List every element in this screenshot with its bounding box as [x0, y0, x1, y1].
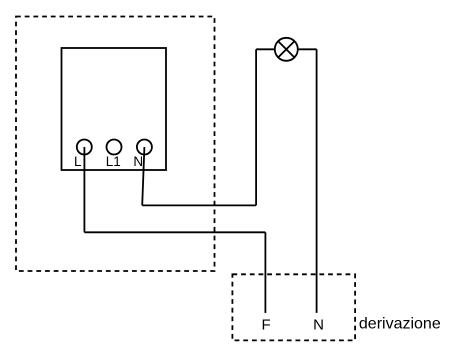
terminal L1	[107, 140, 122, 155]
derivation box (dashed)	[232, 274, 355, 340]
terminal N	[137, 140, 152, 155]
svg-text:L: L	[74, 154, 82, 169]
wire: horizontal run to F	[84, 231, 265, 233]
svg-text:derivazione: derivazione	[359, 316, 441, 333]
svg-text:N: N	[313, 317, 324, 334]
svg-text:L1: L1	[106, 154, 121, 169]
wire: lamp right lead	[298, 48, 317, 50]
wire: drop to terminal F	[264, 232, 266, 313]
wire: terminal L to lower horizontal	[83, 147, 85, 232]
svg-text:N: N	[133, 154, 143, 169]
wire: horizontal run to lamp riser	[142, 204, 256, 206]
wire: terminal N slanted lead	[142, 147, 144, 205]
wire: lamp left lead	[256, 48, 275, 50]
svg-text:F: F	[262, 317, 271, 334]
wire: lamp right drop to N	[316, 49, 318, 313]
terminal L	[77, 140, 92, 155]
wire: lamp left riser	[255, 49, 257, 205]
lamp E1	[275, 38, 298, 61]
junction box enclosure (dashed)	[16, 17, 215, 272]
switch box U1	[62, 48, 167, 170]
